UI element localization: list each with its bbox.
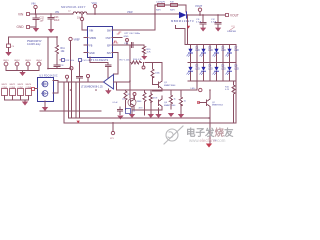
svg-text:C13 NoFit: C13 NoFit (156, 1, 165, 4)
ground R10 (178, 114, 184, 118)
svg-text:3906: 3906 (137, 101, 143, 103)
connector P2 VOUT (226, 14, 239, 18)
pulse mark red (117, 32, 121, 34)
PWM source symbol (7, 37, 15, 48)
GND circles row (3, 60, 42, 72)
wire ISN pin down to feedback (112, 53, 118, 75)
ground at C23 (48, 29, 54, 33)
resistor R13 (151, 69, 161, 78)
capacitor C13 nofit (170, 2, 178, 12)
wire outer bottom bus (64, 82, 236, 123)
inductor L2 (68, 11, 87, 20)
capacitor C9 (77, 61, 83, 118)
wire OVP sense to LED rail (175, 26, 185, 45)
resistor R19 box (60, 59, 74, 63)
ground Q5 (129, 114, 135, 118)
ground at R15 (141, 56, 147, 60)
resistor R14 (130, 59, 143, 64)
net flag mid (142, 66, 145, 69)
pulse mark red 2 (113, 41, 118, 43)
watermark logo (164, 126, 183, 144)
wire main input rail (30, 14, 225, 15)
svg-text:LED: LED (221, 50, 226, 52)
net flag VIN (31, 2, 37, 15)
wire reference output rail (58, 81, 104, 83)
capacitor C10 (124, 43, 133, 48)
wire LED bottom bus (188, 80, 236, 82)
svg-text:LED: LED (234, 50, 239, 52)
svg-text:VOUT: VOUT (230, 14, 239, 18)
ground at C15 (117, 116, 123, 120)
ground R7 (168, 113, 174, 117)
svg-text:LED: LED (208, 68, 213, 70)
svg-text:0.1uF: 0.1uF (113, 102, 119, 104)
svg-text:NoFit: NoFit (170, 8, 175, 11)
jumper JP2 (227, 26, 236, 33)
svg-text:LED-: LED- (191, 88, 196, 90)
capacitor C22 (33, 14, 44, 27)
LED D7 (226, 48, 239, 57)
resistor R7 (170, 90, 176, 109)
wire inner bottom bus (68, 82, 209, 118)
wire connector grounds (5, 96, 29, 102)
wire LED- return (117, 89, 198, 91)
LED D1 (187, 48, 200, 57)
net flag GND mid (124, 36, 129, 45)
resistor R16 (225, 81, 235, 123)
svg-text:WHT3: WHT3 (18, 84, 25, 86)
wire LED top bus (185, 44, 236, 46)
svg-text:WHT4: WHT4 (26, 84, 33, 86)
net flag ref B (65, 75, 68, 82)
wire IC pin stubs left (84, 38, 88, 53)
ground at connectors (22, 102, 28, 106)
power mark red (187, 26, 190, 29)
net flag VBB (80, 14, 88, 30)
connector CON5 (2, 84, 9, 96)
ground at circles row (19, 72, 25, 76)
svg-text:4.7uF: 4.7uF (211, 21, 217, 23)
shunt reference U2 (104, 75, 131, 91)
svg-text:LED: LED (195, 68, 200, 70)
net flag LED- (191, 81, 203, 92)
wire divider branch (48, 37, 71, 69)
svg-text:MBRM120LT3: MBRM120LT3 (171, 19, 194, 23)
connector CON8 (26, 84, 33, 96)
svg-text:VREF: VREF (74, 39, 81, 42)
net flag JP1 (110, 123, 115, 140)
svg-text:VOUT: VOUT (195, 4, 203, 8)
wire OVP pin stub (112, 37, 122, 39)
connector CON6 (10, 84, 17, 96)
resistor R15 (143, 45, 152, 55)
LED D6 (213, 66, 226, 75)
LED D2a (200, 48, 213, 57)
resistor R18 nofit (156, 1, 165, 12)
LED cell column wires (191, 45, 198, 82)
svg-text:VIN: VIN (31, 2, 35, 6)
net flag VCC (92, 1, 98, 14)
svg-text:NoFit: NoFit (156, 8, 161, 11)
pin to U3 (32, 88, 35, 91)
net flag ref A (86, 74, 89, 82)
svg-text:OVP: OVP (106, 37, 111, 40)
svg-text:R14 4.7k: R14 4.7k (133, 59, 143, 61)
svg-text:R19 100k: R19 100k (65, 60, 74, 62)
svg-text:LT1634BCMS8-1.25: LT1634BCMS8-1.25 (81, 86, 103, 89)
LED D5 (213, 48, 226, 57)
svg-text:VSW: VSW (127, 11, 133, 14)
capacitor C7 (105, 63, 111, 79)
svg-text:LED: LED (221, 68, 226, 70)
svg-text:1k: 1k (174, 99, 176, 101)
ground at U3 (44, 101, 46, 107)
svg-text:LED: LED (234, 68, 239, 70)
capacitor C15 (118, 107, 137, 115)
svg-text:1uF: 1uF (40, 19, 45, 22)
PWM input wire (9, 36, 58, 38)
ground at Q2 bottom (206, 144, 212, 148)
wire U3 drains (53, 81, 58, 94)
LED D8 (226, 66, 239, 75)
connector CON7 (18, 84, 25, 96)
svg-text:SHDN: SHDN (89, 37, 96, 40)
resistor R12 (149, 94, 158, 103)
wire IC ground pin to reference (90, 57, 108, 63)
label PWM note (27, 40, 42, 46)
ground at U2 (107, 89, 109, 90)
transistor Q4 (159, 96, 177, 110)
resistor R11 (56, 37, 66, 55)
wire LED mid bus (188, 62, 236, 64)
capacitor C11 (196, 15, 206, 27)
ground at C11 (200, 28, 206, 32)
ground at PWM source (8, 48, 10, 53)
ground Q4 (155, 114, 161, 118)
wires Q cluster verticals (132, 90, 162, 114)
net flag on ref rail (70, 67, 73, 118)
svg-text:WHT1: WHT1 (2, 84, 9, 86)
resistor R10 (180, 90, 187, 114)
net flag VOUT (195, 4, 203, 15)
net flag VBB Q5 (133, 93, 136, 100)
svg-text:VIN: VIN (55, 11, 59, 14)
capacitor C23 (48, 14, 60, 29)
mosfet U3 box (38, 76, 58, 102)
svg-text:MMBT3904: MMBT3904 (164, 85, 176, 87)
svg-text:LT1618EMS: LT1618EMS (89, 58, 109, 62)
wire right edge (235, 81, 237, 123)
red mark on bus (77, 121, 80, 124)
svg-text:FB: FB (89, 44, 92, 47)
svg-text:C14 0.1uF: C14 0.1uF (82, 60, 92, 62)
svg-text:MMBT3904: MMBT3904 (212, 105, 224, 107)
capacitor C14 box (79, 59, 93, 63)
snubber wire top (155, 5, 186, 14)
ground at C12 (215, 28, 221, 32)
transistor Q2 (198, 90, 224, 144)
wire Q cluster (130, 63, 153, 99)
svg-text:22uF: 22uF (54, 19, 60, 22)
svg-text:MMBT3904: MMBT3904 (164, 105, 176, 107)
wire ISP pin (112, 44, 144, 46)
svg-text:WHT2: WHT2 (10, 84, 17, 86)
svg-text:JUMPER: JUMPER (227, 31, 236, 33)
svg-text:LED: LED (208, 50, 213, 52)
wire LED rail from VOUT node (187, 15, 189, 45)
ground R12 (148, 114, 154, 118)
diode D2 (171, 12, 194, 23)
svg-text:4.7uF: 4.7uF (196, 21, 202, 23)
LED D2 (187, 66, 200, 75)
svg-text:R17 1.24k: R17 1.24k (120, 60, 131, 62)
net flag VREF (69, 37, 81, 68)
wire SW pin to switch node (112, 14, 155, 30)
svg-text:www.elecfans.com: www.elecfans.com (189, 138, 226, 143)
svg-text:0-100% duty: 0-100% duty (27, 43, 41, 46)
svg-text:VIN: VIN (89, 29, 93, 32)
wire ground bus mid (40, 110, 101, 112)
resistor R8 (139, 90, 147, 115)
svg-text:GND: GND (124, 36, 129, 38)
wire ref tap (75, 82, 77, 118)
IC U1 box (88, 27, 113, 58)
svg-text:VIN: VIN (18, 13, 24, 17)
svg-text:ISP: ISP (107, 44, 111, 47)
connector P1 pin GND (17, 25, 37, 29)
wire comp branch (129, 45, 131, 63)
ground at C22 (35, 27, 37, 28)
capacitor C12 (211, 15, 221, 27)
svg-text:GND: GND (89, 52, 95, 55)
transistor Q5 (122, 96, 142, 111)
resistor R9 (124, 90, 131, 109)
svg-text:ISN: ISN (107, 52, 111, 55)
transistor Q1 (145, 63, 176, 92)
connector P1 pin VIN (18, 13, 30, 17)
svg-text:LED: LED (195, 50, 200, 52)
svg-text:OPT OSC 1MHz: OPT OSC 1MHz (124, 33, 140, 35)
svg-text:GND: GND (17, 25, 25, 29)
capacitor C8 (54, 56, 64, 69)
svg-text:SRU5018-100Y: SRU5018-100Y (61, 5, 86, 9)
LED D4 (200, 66, 213, 75)
